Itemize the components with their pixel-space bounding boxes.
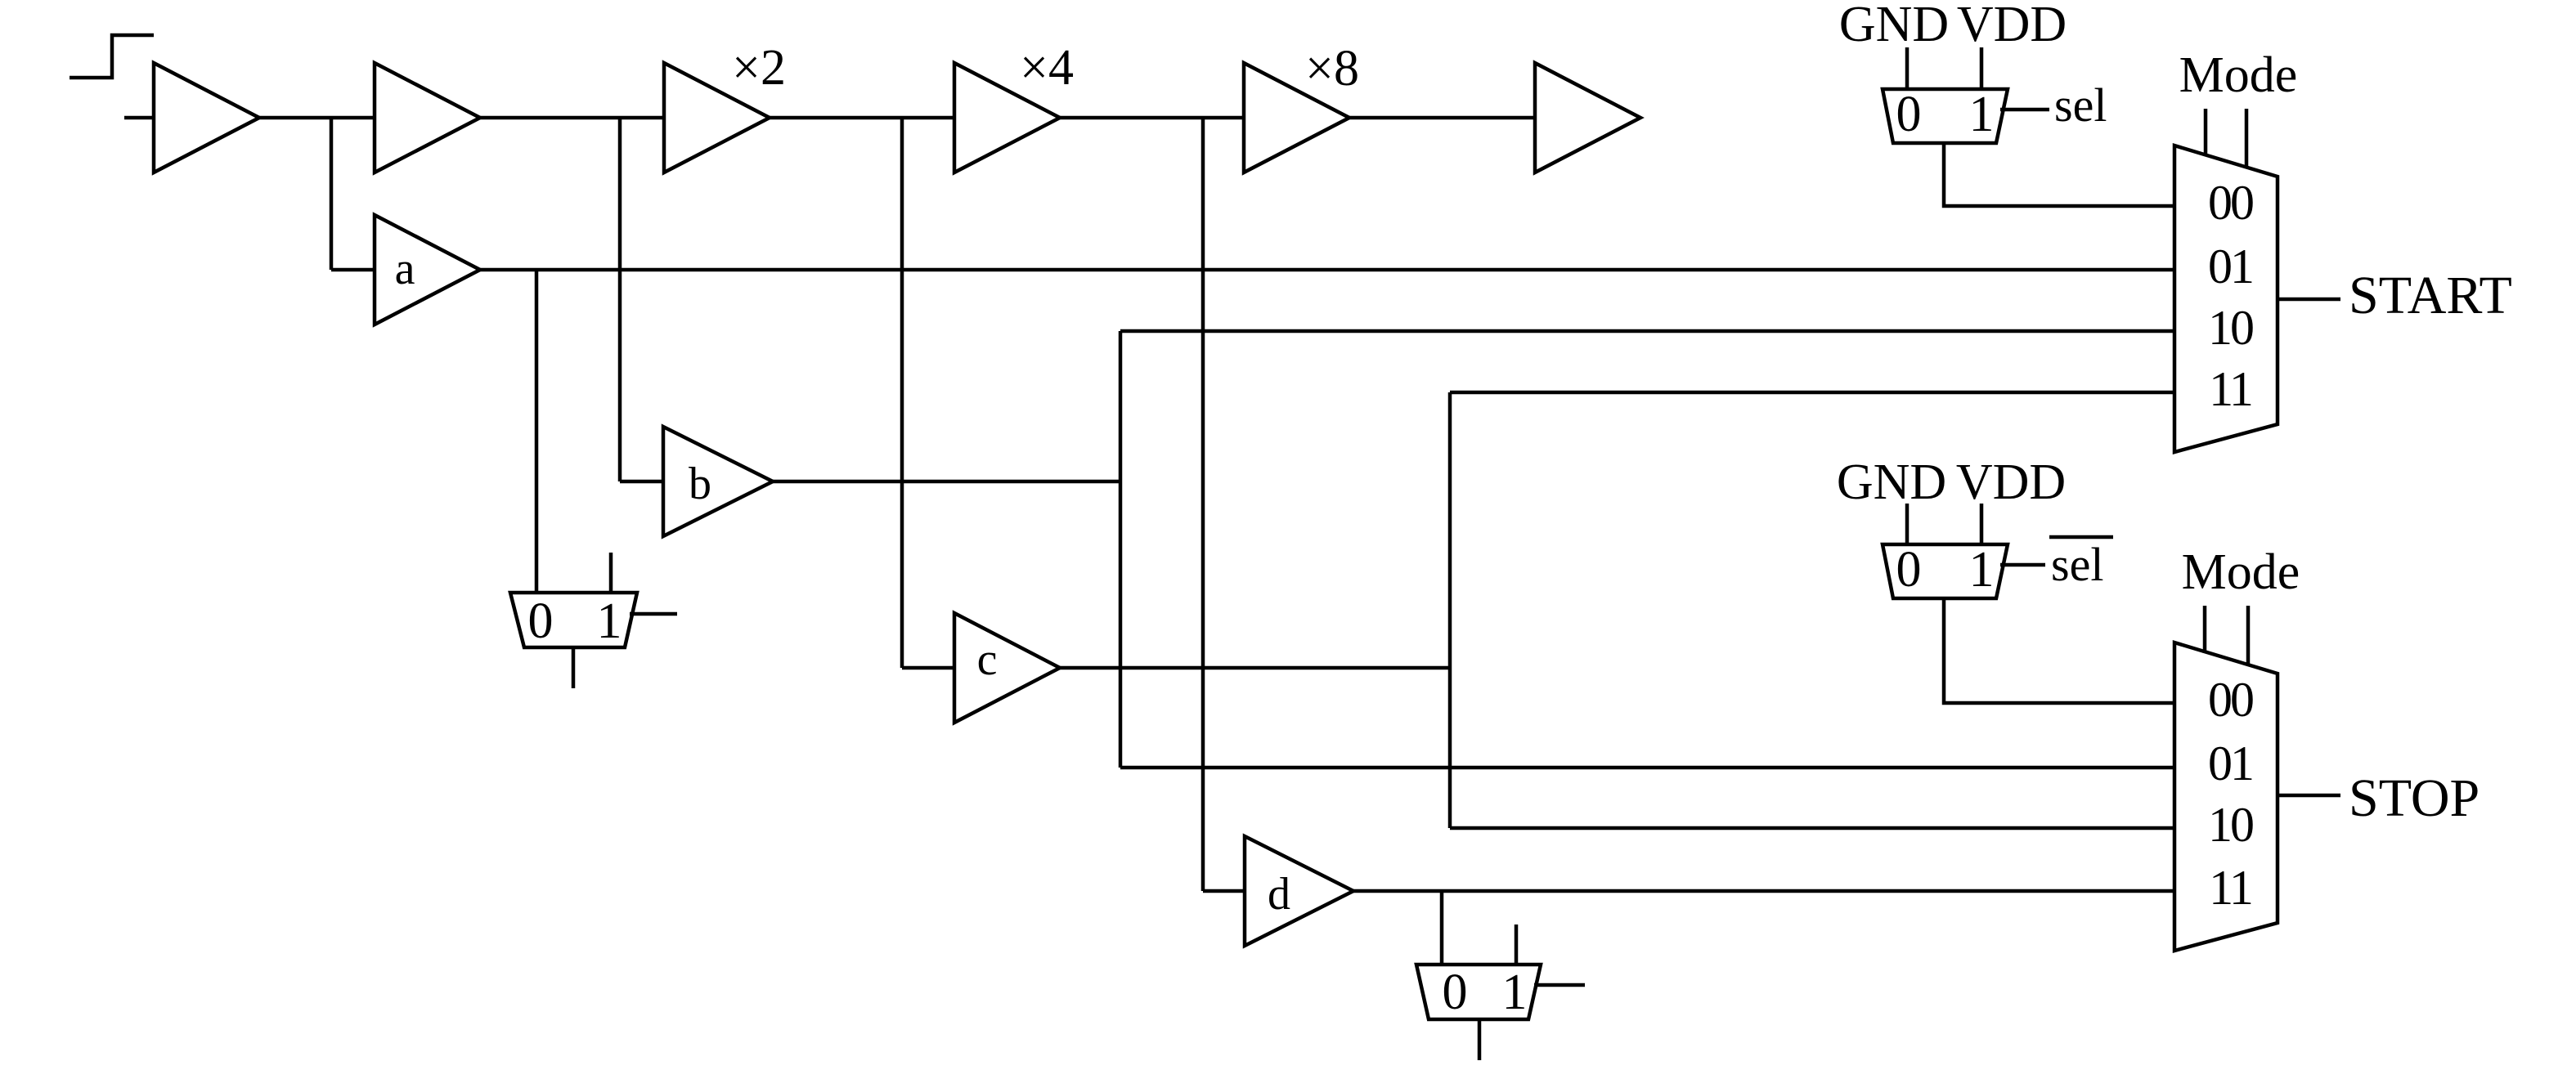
wire c riser xyxy=(1448,392,1452,828)
svg-text:1: 1 xyxy=(1969,87,1995,142)
svg-text:01: 01 xyxy=(2208,736,2252,790)
Mode stub right (lower) xyxy=(2246,606,2251,665)
svg-text:×4: ×4 xyxy=(1020,40,1074,96)
wire junction dropper to buffer c xyxy=(900,118,904,668)
svg-text:Mode: Mode xyxy=(2182,544,2300,600)
buffer U2 xyxy=(375,63,480,172)
mux M2 sel wire xyxy=(2000,108,2049,112)
svg-text:sel: sel xyxy=(2051,538,2103,591)
svg-text:1: 1 xyxy=(597,593,622,649)
wire b to START mux input 10 xyxy=(1120,329,2176,334)
svg-text:1: 1 xyxy=(1502,965,1528,1020)
wire U3 to U4 xyxy=(768,116,956,120)
buffer U1 xyxy=(154,63,259,172)
mux M1 output stub xyxy=(572,647,576,688)
svg-text:d: d xyxy=(1268,869,1290,920)
wire buffer d input xyxy=(1203,889,1246,893)
STOP output wire xyxy=(2278,794,2340,798)
mux M3 sel wire xyxy=(2000,563,2045,567)
svg-text:STOP: STOP xyxy=(2349,768,2480,828)
buffer U3 xyxy=(664,63,770,172)
wire U1 to U2 xyxy=(258,116,376,120)
wire c output xyxy=(1058,666,1452,670)
svg-text:GND: GND xyxy=(1839,0,1949,52)
START output wire xyxy=(2278,298,2340,302)
svg-text:1: 1 xyxy=(1969,542,1995,598)
wire c to STOP mux input 10 xyxy=(1450,826,2176,830)
svg-text:START: START xyxy=(2349,266,2512,325)
mux M1 input 1 stub xyxy=(609,553,613,593)
wire a output to START mux input 01 xyxy=(478,268,2176,272)
svg-text:0: 0 xyxy=(1896,542,1922,598)
mux M2 body xyxy=(1883,89,2008,143)
VDD stub (lower) xyxy=(1980,504,1984,546)
wire buffer a input xyxy=(331,268,376,272)
buffer U5 xyxy=(1244,63,1349,172)
buffer c xyxy=(954,613,1060,723)
svg-text:10: 10 xyxy=(2208,798,2253,852)
input wire stub xyxy=(124,116,155,120)
GND stub (upper) xyxy=(1905,47,1910,91)
step input waveform xyxy=(70,35,154,78)
wire d output to STOP mux input 11 xyxy=(1352,889,2176,893)
wire junction dropper to buffer a xyxy=(330,118,334,270)
mux M1 body xyxy=(510,593,637,647)
buffer U6 xyxy=(1535,63,1640,172)
svg-text:VDD: VDD xyxy=(1956,454,2066,510)
svg-text:0: 0 xyxy=(528,593,554,649)
svg-text:00: 00 xyxy=(2208,176,2253,230)
wire buffer b input xyxy=(620,480,665,484)
mux M4 body xyxy=(1416,965,1541,1019)
mux M4 output stub xyxy=(1478,1019,1482,1060)
wire U4 to U5 xyxy=(1058,116,1245,120)
wire b to STOP mux input 01 xyxy=(1120,766,2176,770)
wire buffer c input xyxy=(902,666,956,670)
wire b riser xyxy=(1119,331,1123,768)
svg-text:10: 10 xyxy=(2208,301,2253,355)
svg-text:11: 11 xyxy=(2209,362,2251,416)
wire b output xyxy=(771,480,1122,484)
svg-text:GND: GND xyxy=(1837,454,1946,510)
wire c to START mux input 11 xyxy=(1450,391,2176,395)
mux M4 sel stub xyxy=(1534,983,1585,987)
buffer a xyxy=(375,215,480,325)
wire junction dropper to buffer d xyxy=(1201,118,1205,891)
svg-text:01: 01 xyxy=(2208,240,2252,293)
svg-text:c: c xyxy=(977,634,998,685)
buffer U4 xyxy=(954,63,1060,172)
mux M3 body xyxy=(1883,544,2008,598)
wire M2 output to START mux input 00 xyxy=(1944,143,2176,206)
VDD stub (upper) xyxy=(1980,47,1984,91)
svg-text:Mode: Mode xyxy=(2179,47,2298,103)
svg-text:0: 0 xyxy=(1896,87,1922,142)
mux START body xyxy=(2174,146,2278,452)
Mode stub left (upper) xyxy=(2204,109,2208,156)
label sel-bar overline xyxy=(2049,535,2113,539)
svg-text:0: 0 xyxy=(1443,965,1468,1020)
svg-text:b: b xyxy=(689,459,711,509)
GND stub (lower) xyxy=(1905,504,1910,546)
svg-text:11: 11 xyxy=(2209,861,2251,915)
svg-text:00: 00 xyxy=(2208,673,2253,727)
buffer d xyxy=(1245,836,1353,946)
mux M1 sel stub xyxy=(630,612,677,616)
wire a output branch to mux M1 xyxy=(535,270,539,594)
Mode stub left (lower) xyxy=(2203,606,2207,653)
Mode stub right (upper) xyxy=(2245,109,2249,168)
svg-text:a: a xyxy=(395,244,415,294)
wire d output branch to mux M4 xyxy=(1440,891,1444,966)
svg-text:×2: ×2 xyxy=(732,40,786,96)
buffer b xyxy=(663,427,773,536)
mux STOP body xyxy=(2174,642,2278,951)
wire U2 to U3 xyxy=(478,116,666,120)
wire U5 to U6 xyxy=(1348,116,1537,120)
mux M4 input 1 stub xyxy=(1515,924,1519,965)
svg-text:sel: sel xyxy=(2054,78,2107,132)
svg-text:VDD: VDD xyxy=(1957,0,2067,52)
wire M3 output to STOP mux input 00 xyxy=(1944,598,2176,703)
svg-text:×8: ×8 xyxy=(1305,41,1359,96)
wire junction dropper to buffer b xyxy=(618,118,622,481)
